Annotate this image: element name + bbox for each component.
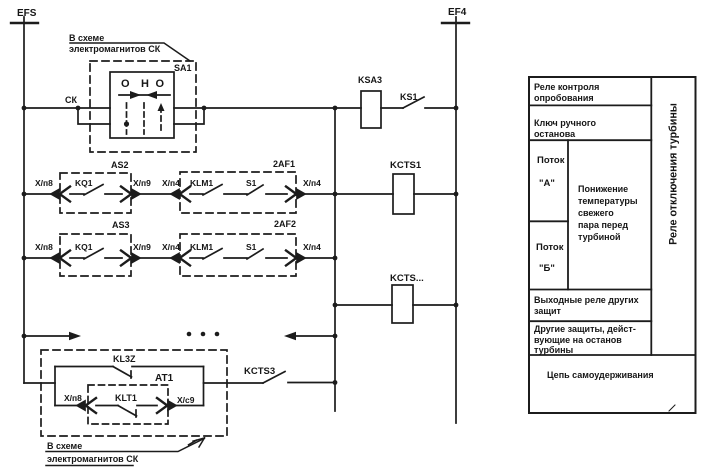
contact S1 (row3) — [247, 249, 263, 259]
table row line 5 — [529, 354, 696, 356]
svg-text:KCTS3: KCTS3 — [244, 366, 275, 377]
wire exit to KCTS3 — [204, 382, 264, 384]
contact KL3Z label — [113, 354, 136, 364]
connector X/п4 label (row3 left) — [162, 242, 180, 252]
wire loop bottom a — [55, 405, 77, 407]
svg-text:KSA3: KSA3 — [358, 75, 382, 85]
switch SA1 dashed box — [90, 61, 196, 152]
block AS2 label — [111, 160, 129, 170]
middle vertical wire — [334, 108, 336, 411]
connector X/п4 label (row2 right) — [303, 178, 321, 188]
connector X/п8 label (row3) — [35, 242, 53, 252]
svg-text:турбины: турбины — [534, 345, 574, 355]
svg-text:Другие защиты, дейст-: Другие защиты, дейст- — [534, 324, 636, 334]
svg-text:защит: защит — [534, 306, 561, 316]
table row line 4 — [529, 320, 651, 322]
block electromagnets dashed box (bottom) — [41, 350, 227, 436]
table cell text: Поток Б — [536, 242, 564, 274]
svg-text:О: О — [156, 78, 165, 90]
wire KCTS3 to middle line — [288, 382, 335, 384]
switch SA1 cam line — [119, 94, 170, 96]
svg-text:KLM1: KLM1 — [190, 178, 213, 188]
contact KLM1 (row2) — [203, 185, 222, 196]
annotation text электромагнитов СК (top) — [69, 44, 161, 54]
wire loop bottom d — [176, 405, 204, 407]
table row line 1 — [529, 104, 651, 106]
svg-text:X/п4: X/п4 — [162, 242, 180, 252]
svg-text:"Б": "Б" — [539, 263, 555, 274]
svg-text:EFS: EFS — [17, 8, 37, 19]
wire row2 h — [306, 193, 335, 195]
svg-text:AS3: AS3 — [112, 220, 130, 230]
svg-text:X/п9: X/п9 — [133, 242, 151, 252]
junction row1 middle line — [333, 106, 338, 111]
svg-text:X/п4: X/п4 — [303, 242, 321, 252]
svg-text:В схеме: В схеме — [47, 441, 82, 451]
connector X/п9 (row2) — [121, 187, 140, 202]
connector X/п8 (bottom) — [77, 398, 96, 413]
device AT1 label — [155, 373, 174, 384]
connector X/п4 (row3 right) — [286, 251, 305, 266]
svg-text:AT1: AT1 — [155, 373, 174, 384]
junction KCTS1 EF4 — [454, 192, 459, 197]
wire loop bottom b — [96, 405, 118, 407]
wire KS1 to EF4 — [425, 107, 456, 109]
contact KLM1 label (row2) — [190, 178, 213, 188]
annotation leader line with arrow (bottom) — [46, 438, 205, 452]
svg-text:"А": "А" — [539, 178, 555, 189]
svg-text:X/п4: X/п4 — [162, 178, 180, 188]
connector X/с9 — [157, 398, 176, 413]
wire row2 e — [190, 193, 203, 195]
junction row2 middle line — [333, 192, 338, 197]
arrow to left (continuation) — [284, 332, 335, 340]
contact KLM1 (row3) — [203, 249, 222, 260]
svg-text:KS1: KS1 — [400, 92, 418, 102]
block AS3 label — [112, 220, 130, 230]
svg-text:EF4: EF4 — [448, 7, 467, 18]
wire KSA3 to KS1 — [381, 107, 403, 109]
table potok A/B divider — [529, 220, 568, 222]
table outer box — [529, 77, 696, 413]
svg-text:электромагнитов СК: электромагнитов СК — [69, 44, 161, 54]
contact S1 (row2) — [247, 185, 263, 195]
switch SA1 contact arrow up — [158, 103, 165, 111]
switch SA1 contact ball — [124, 121, 129, 126]
bus EF4 vertical wire — [455, 17, 457, 423]
svg-text:X/п8: X/п8 — [64, 393, 82, 403]
switch SA1 contact line 2 — [143, 103, 145, 134]
switch SA1 contact line 3 — [160, 107, 162, 134]
svg-text:Поток: Поток — [537, 155, 565, 166]
switch SA1 positions О Н О — [121, 78, 165, 90]
wire KCTS1 right — [414, 193, 456, 195]
junction arrow row left bus — [22, 334, 27, 339]
svg-text:Реле контроля: Реле контроля — [534, 82, 599, 92]
wire row2 a — [24, 193, 52, 195]
svg-text:KQ1: KQ1 — [75, 178, 93, 188]
table cell text: Реле контроля опробования — [534, 82, 599, 103]
wire row3 f — [224, 257, 247, 259]
contact KLM1 label (row3) — [190, 242, 213, 252]
annotation underline 2 (bottom) — [46, 465, 133, 467]
svg-text:KCTS1: KCTS1 — [390, 160, 422, 171]
svg-text:AS2: AS2 — [111, 160, 129, 170]
junction KCTS3 middle line — [333, 380, 338, 385]
connector X/п9 (row3) — [121, 251, 140, 266]
contact KQ1 label (row2) — [75, 178, 93, 188]
junction row3 middle line — [333, 256, 338, 261]
svg-text:X/п4: X/п4 — [303, 178, 321, 188]
table cell text: Понижение температуры — [578, 184, 638, 242]
table cell text: Поток А — [537, 155, 565, 189]
wire bypass right — [174, 108, 204, 124]
connector X/п8 label (bottom) — [64, 393, 82, 403]
annotation text В схеме (bottom) — [47, 441, 82, 451]
annotation leader: В схеме электромагнитов СК (top) — [70, 43, 190, 61]
wire row2 c — [105, 193, 122, 195]
svg-text:S1: S1 — [246, 242, 257, 252]
wire row3 h — [306, 257, 335, 259]
junction left bus row2 — [22, 192, 27, 197]
svg-text:KLT1: KLT1 — [115, 393, 137, 403]
wire KCTS... right — [413, 304, 456, 306]
junction KCTS... EF4 — [454, 303, 459, 308]
bus EFS vertical wire — [23, 17, 25, 383]
table potok divider vertical — [567, 140, 569, 289]
contact KS1 label — [400, 92, 418, 102]
junction bypass right — [202, 106, 207, 111]
contact KCTS3 — [263, 372, 285, 384]
svg-text:пара перед: пара перед — [578, 220, 628, 230]
table cell text: Цепь самоудерживания — [547, 370, 654, 380]
block 2AF1 label — [273, 159, 295, 169]
svg-text:S1: S1 — [246, 178, 257, 188]
wire bypass left — [78, 108, 110, 124]
loop left edge — [54, 367, 56, 406]
connector X/п4 (row3 left) — [171, 251, 190, 266]
switch SA1 body box — [110, 72, 174, 138]
switch SA1 cam arrow right — [130, 91, 141, 99]
contact KQ1 label (row3) — [75, 242, 93, 252]
contact KCTS3 label — [244, 366, 275, 377]
bus EF4 tick — [442, 22, 469, 24]
svg-text:KQ1: KQ1 — [75, 242, 93, 252]
wire row2 f — [224, 193, 247, 195]
wire row3 b — [70, 257, 84, 259]
arrow to right (continuation) — [24, 332, 81, 340]
wire row2 b — [70, 193, 84, 195]
connector X/п4 label (row2 left) — [162, 178, 180, 188]
connector X/п4 (row2 left) — [171, 187, 190, 202]
svg-text:KLM1: KLM1 — [190, 242, 213, 252]
wire row3 c — [105, 257, 122, 259]
block KLT1 dashed box — [88, 385, 168, 424]
svg-text:СК: СК — [65, 95, 77, 105]
scan artifact tick (bottom right of table) — [669, 405, 675, 411]
wire row2 g — [266, 193, 287, 195]
svg-text:турбиной: турбиной — [578, 232, 621, 242]
wire loop bottom c — [137, 405, 157, 407]
bus EF4 label — [448, 7, 467, 18]
bus EFS label — [17, 8, 37, 19]
svg-text:X/п8: X/п8 — [35, 178, 53, 188]
junction arrow row middle line — [333, 334, 338, 339]
svg-text:вующие на останов: вующие на останов — [534, 335, 622, 345]
block AS2 dashed box — [60, 173, 131, 213]
annotation text В схеме (top) — [69, 33, 104, 43]
contact S1 label (row2) — [246, 178, 257, 188]
ellipsis dots — [187, 332, 220, 337]
wire loop top right — [132, 366, 204, 368]
junction СК bypass left — [76, 106, 81, 111]
relay coil KSA3 — [361, 91, 381, 128]
bus EFS tick — [11, 22, 38, 24]
svg-text:X/п9: X/п9 — [133, 178, 151, 188]
svg-text:Выходные реле других: Выходные реле других — [534, 295, 639, 305]
relay coil KCTS... — [392, 285, 413, 323]
relay KCTS1 label — [390, 160, 422, 171]
svg-text:опробования: опробования — [534, 93, 594, 103]
switch SA1 cam arrow left — [146, 91, 157, 99]
wire row1 middle — [174, 107, 335, 109]
wire feed from EFS bus — [24, 382, 55, 384]
contact KQ1 (row2) — [84, 185, 103, 196]
svg-text:Ключ ручного: Ключ ручного — [534, 118, 596, 128]
svg-text:X/с9: X/с9 — [177, 395, 195, 405]
table row line 2 — [529, 139, 651, 141]
connector X/п9 label (row2) — [133, 178, 151, 188]
relay KSA3 label — [358, 75, 382, 85]
svg-text:Цепь самоудерживания: Цепь самоудерживания — [547, 370, 654, 380]
svg-text:Н: Н — [141, 78, 149, 90]
connector X/п9 label (row3) — [133, 242, 151, 252]
wire row2 d — [141, 193, 171, 195]
wire loop top left — [55, 366, 113, 368]
block 2AF1 dashed box — [180, 172, 296, 213]
table cell text: Другие защиты — [534, 324, 636, 355]
junction left bus row1 — [22, 106, 27, 111]
wire row3 e — [190, 257, 203, 259]
relay KCTS... label — [390, 273, 424, 284]
svg-text:KCTS...: KCTS... — [390, 273, 424, 284]
switch SA1 contact line 1 — [126, 103, 128, 134]
svg-text:электромагнитов СК: электромагнитов СК — [47, 454, 139, 464]
table cell text: Выходные реле других защит — [534, 295, 639, 316]
svg-text:температуры: температуры — [578, 196, 638, 206]
connector X/с9 label — [177, 395, 195, 405]
contact KQ1 (row3) — [84, 249, 103, 260]
connector X/п8 (row2) — [51, 187, 70, 202]
contact KLT1 label — [115, 393, 137, 403]
connector X/п4 (row2 right) — [286, 187, 305, 202]
svg-text:свежего: свежего — [578, 208, 614, 218]
contact KL3Z — [113, 367, 132, 379]
wire row3 a — [24, 257, 52, 259]
wire row3 d — [141, 257, 171, 259]
loop right edge — [203, 367, 205, 406]
junction row1 EF4 — [454, 106, 459, 111]
svg-text:О: О — [121, 78, 130, 90]
table vertical text: Реле отключения турбины — [668, 103, 680, 245]
svg-text:X/п8: X/п8 — [35, 242, 53, 252]
svg-text:KL3Z: KL3Z — [113, 354, 136, 364]
svg-text:2AF1: 2AF1 — [273, 159, 295, 169]
connector X/п8 label (row2) — [35, 178, 53, 188]
wire row1 left — [24, 107, 110, 109]
connector X/п4 label (row3 right) — [303, 242, 321, 252]
wire middle line to KSA3 — [335, 107, 361, 109]
svg-text:Реле отключения турбины: Реле отключения турбины — [668, 103, 680, 245]
annotation text электромагнитов СК (bottom) — [47, 454, 139, 464]
contact KLT1 — [118, 406, 137, 418]
block 2AF2 dashed box — [180, 234, 296, 276]
svg-text:останова: останова — [534, 129, 576, 139]
svg-text:Понижение: Понижение — [578, 184, 628, 194]
svg-text:SA1: SA1 — [174, 63, 192, 73]
switch SA1 label — [174, 63, 192, 73]
svg-text:2AF2: 2AF2 — [274, 219, 296, 229]
block AS3 dashed box — [60, 234, 131, 276]
svg-text:В схеме: В схеме — [69, 33, 104, 43]
relay coil KCTS1 — [393, 174, 414, 214]
table row line 3 — [529, 289, 651, 291]
wire row3 g — [266, 257, 287, 259]
block 2AF2 label — [274, 219, 296, 229]
wire KCTS1 left — [335, 193, 393, 195]
junction KCTS... middle line — [333, 303, 338, 308]
connector X/п8 (row3) — [51, 251, 70, 266]
node СК label — [65, 95, 77, 105]
contact S1 label (row3) — [246, 242, 257, 252]
junction left bus row3 — [22, 256, 27, 261]
table cell text: Ключ ручного останова — [534, 118, 596, 139]
contact KS1 — [403, 97, 424, 108]
table inner vertical divider (right column) — [650, 77, 652, 355]
wire KCTS... left — [335, 304, 392, 306]
svg-text:Поток: Поток — [536, 242, 564, 253]
